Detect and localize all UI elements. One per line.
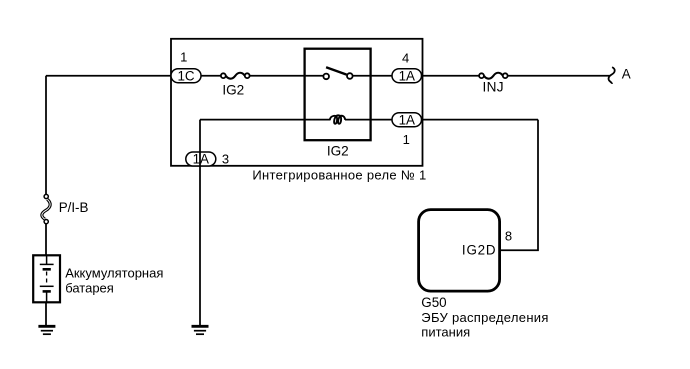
svg-text:1A: 1A (399, 112, 415, 127)
svg-text:G50: G50 (421, 295, 446, 310)
svg-text:IG2D: IG2D (462, 243, 496, 258)
svg-text:1: 1 (180, 49, 187, 64)
svg-text:4: 4 (402, 51, 409, 66)
svg-text:INJ: INJ (483, 80, 504, 95)
svg-text:питания: питания (421, 325, 470, 340)
svg-text:1A: 1A (193, 152, 209, 167)
svg-text:1: 1 (403, 132, 410, 147)
svg-text:8: 8 (505, 229, 512, 244)
svg-text:1C: 1C (177, 68, 194, 83)
svg-text:ЭБУ распределения: ЭБУ распределения (421, 310, 548, 325)
svg-text:3: 3 (222, 151, 229, 166)
svg-text:P/I-B: P/I-B (59, 200, 89, 215)
svg-text:1A: 1A (399, 68, 415, 83)
svg-text:Интегрированное реле № 1: Интегрированное реле № 1 (252, 167, 426, 182)
svg-text:IG2: IG2 (327, 144, 349, 159)
svg-text:A: A (622, 67, 631, 82)
svg-text:батарея: батарея (65, 281, 114, 296)
svg-text:Аккумуляторная: Аккумуляторная (65, 266, 163, 281)
svg-text:IG2: IG2 (222, 83, 244, 98)
